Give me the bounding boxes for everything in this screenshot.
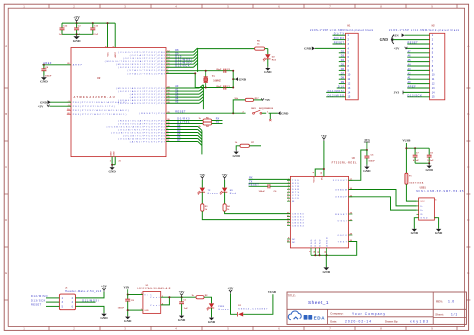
capacitor C9 100nF [428,148,430,155]
ground flag (SW1) [278,111,281,115]
ground flag (H2 pin 2) [393,39,430,41]
wire D0/RX to R5 [166,120,203,122]
svg-text:100nF: 100nF [118,307,125,309]
header H1 1x15 [346,33,359,100]
svg-text:NC: NC [292,242,296,244]
svg-text:GND: GND [178,318,186,322]
svg-text:xky183: xky183 [410,320,428,324]
svg-text:GND: GND [239,77,247,81]
svg-text:TITLE:: TITLE: [288,294,296,297]
svg-text:2020-02-14: 2020-02-14 [345,320,371,324]
wire F1 to USB VCC [406,184,416,201]
svg-text:GND: GND [363,169,371,173]
svg-text:1.0: 1.0 [448,300,454,304]
svg-text:3V3: 3V3 [364,138,370,142]
svg-text:RESET: RESET [335,214,347,216]
svg-text:DCD: DCD [292,198,299,200]
wire VIN node to U1 [128,294,143,296]
svg-text:MINI-USB-5P-SMT-H6.65: MINI-USB-5P-SMT-H6.65 [416,190,464,193]
svg-text:RXD: RXD [292,183,299,185]
resistor R4 1k [203,122,212,125]
svg-text:(SCL0/ADC5/PTCXY)PC5: (SCL0/ADC5/PTCXY)PC5 [118,102,165,105]
wire TX LED to CBUS [202,211,290,219]
svg-text:VCC: VCC [108,52,110,57]
resistor R5 1k [203,119,212,122]
resistor R7 1k [240,144,249,147]
svg-text:NC: NC [292,239,296,241]
power flag +5V (decoupling group) [76,21,78,23]
svg-text:D12/MISO: D12/MISO [31,295,47,298]
svg-text:Green: Green [218,308,229,311]
svg-text:GND: GND [114,151,116,156]
wire H1 pin 5 net D2 [339,52,346,54]
wire H2 pin 13 net AREF [407,87,429,89]
svg-text:GND: GND [264,70,272,74]
svg-text:GND: GND [73,39,81,43]
wire U1 GND pin to C8 node [128,309,143,311]
svg-text:PE2(PTCXY/ADC6/ACLS/ADC): PE2(PTCXY/ADC6/ACLS/ADC) [73,109,129,112]
wire H1 pin 15 net D12/MISO [326,96,345,98]
svg-text:Sheet:: Sheet: [435,312,444,316]
wire H1 pin 14 net D11/MOSI [326,91,345,93]
svg-text:GND: GND [233,154,241,158]
svg-text:TX: TX [216,121,220,124]
wire ground rail drop [325,255,327,267]
wire H2 pin 5 net A7 [407,52,429,54]
svg-text:GND: GND [40,80,48,84]
wire H2 pin 8 net A4 [407,65,429,67]
svg-text:+5V: +5V [264,98,271,102]
svg-text:A: A [467,44,469,48]
svg-text:REV:: REV: [436,300,443,304]
svg-text:D: D [467,218,469,222]
wire H2 pin 12 net A0 [407,83,429,85]
capacitor C13 4.7uF [92,23,94,28]
svg-text:(AIN1/PTCXY)PD7: (AIN1/PTCXY)PD7 [130,140,166,143]
svg-text:RESET: RESET [408,42,419,45]
svg-text:AREF: AREF [408,86,417,89]
svg-text:(CLKO/ICP1/PTCXY)PB0: (CLKO/ICP1/PTCXY)PB0 [118,52,165,54]
svg-text:RESET: RESET [31,304,42,307]
bus vertical PD [201,130,203,154]
svg-text:GND: GND [109,170,117,174]
wire R5 to RX label [212,120,223,122]
wire H1 pin 8 net D5 [339,65,346,67]
fuse F1 0467160A [405,173,408,184]
svg-text:B: B [467,112,469,116]
svg-text:D0/RX: D0/RX [334,37,345,40]
wire H2 pin 15 net D13/SCK [407,96,429,98]
wire H1 pin 12 net D9 [339,83,346,85]
wire H1 pin 3 net RESET [333,43,346,45]
svg-text:+5V: +5V [321,134,328,138]
power flag +5V (R17) [261,98,264,100]
svg-text:100nF: 100nF [45,75,52,77]
svg-text:100nF: 100nF [368,161,375,163]
wire RESET to C6 [249,185,268,187]
svg-text:SS814_C150867: SS814_C150867 [238,309,268,311]
svg-text:RESET: RESET [175,110,186,113]
wire XTAL2 (PB7) [166,73,233,87]
ground (decoupling group) [76,34,78,36]
svg-text:OSCI: OSCI [338,221,348,223]
svg-text:+5V: +5V [394,47,400,51]
svg-text:+5V: +5V [228,287,235,291]
ground (C5) [366,165,368,167]
svg-text:AVCC: AVCC [114,51,117,57]
power flag +5V (TX LED) [201,178,203,180]
svg-text:100nF: 100nF [427,160,434,162]
svg-text:E: E [5,271,7,275]
svg-text:GND: GND [304,47,312,51]
svg-text:RX: RX [249,176,253,179]
svg-text:GND: GND [208,320,216,324]
wire H1 pin 11 net D8 [339,78,346,80]
capacitor C7 4.7uF [414,148,416,155]
wire J1 pin1 D12/MISO [46,297,59,299]
wire USB GND to ground [414,218,418,229]
wire R6 to LED D2 [265,48,268,50]
svg-text:GND: GND [323,270,331,274]
wire USBDP to USB D+ [349,197,417,210]
svg-text:3V3: 3V3 [394,91,400,95]
pins GND bottom [111,157,113,165]
svg-text:PWR: PWR [218,306,225,308]
svg-text:VCC: VCC [321,175,323,180]
wire 3V3OUT to 3V3 [349,150,367,180]
FT232RL U3 body [290,176,348,248]
svg-text:+5V: +5V [73,16,80,20]
svg-text:D13/SCK: D13/SCK [31,299,46,302]
USB connector USB1 MINI-USB-5P [419,198,435,220]
svg-text:B: B [5,112,7,116]
svg-text:(MISO0/RXD1/PTCXY)PB4: (MISO0/RXD1/PTCXY)PB4 [116,64,166,66]
ground (MCU bottom) [111,165,113,168]
svg-text:21OS-1*15P L=11.6MM/Gold-plate: 21OS-1*15P L=11.6MM/Gold-plated black [389,29,460,32]
svg-text:20pF: 20pF [216,86,222,88]
svg-text:DTR: DTR [292,186,299,188]
wire RESET from MCU [166,112,246,114]
wire fan PB0-PB5 to bus [166,51,194,53]
ground (C4) [43,76,45,78]
svg-text:AGND: AGND [325,237,328,247]
svg-text:GND: GND [420,218,427,220]
resistor R6 1k [255,47,265,50]
svg-text:U2: U2 [97,76,101,80]
wire bus to R6 [198,48,255,50]
svg-text:3V3OUT: 3V3OUT [333,180,348,182]
wire U1 Vout pins join [161,297,170,305]
wire USB shield to ground [434,218,438,229]
capacitor C4 100nF [43,65,45,69]
ground (D2 LED) [267,67,269,68]
wire PWR LED to ground [211,308,213,317]
capacitor C1 20pF (bottom) [223,85,225,89]
power flag 3V3 (H2 pin 14) [403,91,430,93]
wire USBDM to USB D- [349,190,417,206]
ground (FT232) [325,266,327,268]
svg-text:D11/MOSI: D11/MOSI [328,90,345,93]
LED TX Green [201,180,203,188]
wire H2 pin 6 net A6 [407,56,429,58]
power flag +5V (RX LED) [224,178,226,180]
svg-text:VUSB: VUSB [268,290,276,294]
power flag +5V (MCU pin 5) [50,105,72,107]
switch SW1 unused pin stub [269,113,271,119]
MCU U2 ATMEGA328PB-AU body [71,48,166,157]
svg-text:D1/TX: D1/TX [334,33,345,36]
LED PWR Green [209,303,214,307]
wire J1 pin3 D13/SCK [46,301,59,303]
svg-text:GND: GND [319,239,321,246]
svg-text:(OC0B/T1/PTCXY)PD5: (OC0B/T1/PTCXY)PD5 [123,135,166,137]
svg-text:(SCK1/ADC1/PTCXY)PC1: (SCK1/ADC1/PTCXY)PC1 [118,90,165,93]
svg-text:CBUS2: CBUS2 [292,219,304,221]
power flag +5V (U1 output) [181,295,183,297]
svg-text:4.7uF: 4.7uF [92,33,98,36]
ground (C8) [127,315,129,318]
bus vertical PC [202,85,204,109]
wire XTAL1 (PB6) [166,70,233,72]
wire caps to ground [415,162,429,164]
capacitor C2 1uF [76,23,78,28]
wire H2 pin 11 net A1 [407,78,429,80]
svg-text:GND: GND [144,310,149,312]
ground flag (H1 pin 4) [315,47,346,49]
power flag VIN (H2 pin 1) [405,34,430,36]
svg-text:(ADC3/PTCXY)PC3: (ADC3/PTCXY)PC3 [130,96,166,99]
wire H1 pin 10 net D7 [339,74,346,76]
svg-text:16MHZ: 16MHZ [213,81,221,83]
wire AREF to pin 20 [42,64,71,66]
ground (J1) [103,312,105,315]
wire fan A0-A5 to bus [166,87,199,89]
svg-text:Date:: Date: [330,319,337,323]
ground (C1x) [181,314,183,317]
svg-text:CTS: CTS [292,195,300,197]
ground (C7/C9) [428,163,430,165]
svg-text:D10: D10 [338,86,345,89]
capacitor C12 1uF [61,23,63,28]
svg-text:D: D [5,218,7,222]
svg-text:D-: D- [420,206,423,208]
svg-text:CBUS1: CBUS1 [292,216,304,218]
svg-text:GND: GND [100,316,108,320]
wire R17 to reset node [233,100,245,113]
svg-text:(OC4B/T0/XCK0/PTCXY)PD4: (OC4B/T0/XCK0/PTCXY)PD4 [111,132,165,134]
svg-text:GND: GND [124,319,132,323]
ground (R7) [235,150,237,152]
svg-text:Red: Red [230,193,237,195]
resistor R17 10k pull-up [245,98,253,101]
wire H2 pin 9 net A3 [407,69,429,71]
wire TX to RXD [249,182,291,184]
svg-text:FT232RL-REEL: FT232RL-REEL [332,162,358,165]
svg-text:OSCO: OSCO [338,235,348,237]
diode D1 SS814 [238,312,243,316]
svg-text:20pF: 20pF [216,69,222,71]
svg-text:D11/MOSI: D11/MOSI [82,299,99,302]
wire LED to ground [267,59,269,67]
svg-text:4.7uF: 4.7uF [413,159,419,162]
ground flag (crystal) [235,77,238,81]
wire H1 pin 6 net D3 [339,56,346,58]
capacitor C8 100nF [127,295,129,299]
svg-text:(OC0A/AIN0/PTCXY)PD6: (OC0A/AIN0/PTCXY)PD6 [118,137,165,140]
wire +5V to D1 [231,294,238,315]
svg-text:(RXD0/OC3A/PTCXY)PD0: (RXD0/OC3A/PTCXY)PD0 [118,119,165,122]
svg-text:Header-Male-2.54_2x3: Header-Male-2.54_2x3 [65,290,102,293]
svg-text:Company:: Company: [330,312,343,316]
wire J1 pin5 RESET [46,305,59,307]
svg-text:Drawn By:: Drawn By: [385,319,398,323]
svg-text:0467160A: 0467160A [409,181,423,184]
wire J1 pin2 to +5V [76,292,105,298]
ground flag (MCU pin 3) [50,101,72,103]
wire D1/TX to R4 [166,123,203,125]
svg-text:(TXD0/OC4A/PTCXY)PD1: (TXD0/OC4A/PTCXY)PD1 [118,122,165,125]
resistor R4 1k (RX LED) [224,192,226,204]
svg-text:CBUS3: CBUS3 [292,222,304,224]
svg-text:100nF: 100nF [259,191,266,193]
wire VUSB rail [405,143,407,173]
svg-text:(MOSI0/TXD1/OC2A/PTCXY)PB3: (MOSI0/TXD1/OC2A/PTCXY)PB3 [105,60,166,63]
bus vertical PB [197,48,199,72]
power flag +5V (H2 pin 4) [406,47,430,49]
wire cap bottoms to GND [62,33,93,35]
svg-text:GND: GND [435,231,443,235]
wire +5V rail to VCC/AVCC [62,22,115,24]
LED RX Red [224,180,226,188]
wire TEST to ground rail [311,242,357,256]
svg-text:RTS: RTS [292,192,300,194]
svg-text:GND: GND [315,239,317,246]
svg-text:RX: RX [230,190,234,192]
svg-text:+5V: +5V [179,290,186,294]
wire RX to TXD [249,178,291,180]
header J1 2x3 ICSP [59,294,75,310]
svg-text:D13/SCK: D13/SCK [175,64,190,67]
wire fan D2-D7 to bus [166,126,198,128]
wire R4 to TX label [212,123,223,125]
wire H2 pin 7 net A5 [407,61,429,63]
wire R17 to +5V [254,99,263,101]
svg-text:GND: GND [411,231,419,235]
ground (USB shield) [438,228,440,230]
wire H2 pin 3 net RESET [407,43,429,45]
svg-text:Your Company: Your Company [352,312,385,316]
svg-text:GND: GND [110,151,112,156]
wire +5V to VCC/VCCIO [323,141,325,176]
svg-text:SW1: SW1 [251,108,257,110]
svg-text:Red: Red [272,59,277,61]
svg-text:GND: GND [311,239,313,246]
svg-text:VIN: VIN [393,33,399,37]
power flag +5V (D1) [230,292,232,294]
svg-text:(RESET#)PC6: (RESET#)PC6 [139,113,165,115]
wire R7 to ground [236,146,240,150]
svg-text:(OC3B/XCK0/AIN1/PTCXY)PD2: (OC3B/XCK0/AIN1/PTCXY)PD2 [107,125,166,128]
capacitor C2x 20pF (top) [223,69,225,73]
wire H2 pin 10 net A2 [407,74,429,76]
svg-text:(SDA0/ADC4/PTCXY)PC4: (SDA0/ADC4/PTCXY)PC4 [118,99,165,102]
svg-text:CBUS4: CBUS4 [292,225,304,227]
svg-text:Green: Green [208,192,219,195]
svg-text:VCC: VCC [420,201,425,203]
svg-text:C: C [467,165,469,169]
svg-text:PE3(PTCY/ADC7/T3/MOSI1): PE3(PTCY/ADC7/T3/MOSI1) [73,113,127,116]
wire D1 to VUSB [243,294,273,314]
capacitor C5 100nF [366,150,368,156]
header H2 1x15 [430,33,445,100]
wire H1 pin 9 net D6 [339,69,346,71]
svg-text:(MISO1/ADC0/PTCXY)PC0: (MISO1/ADC0/PTCXY)PC0 [116,87,166,90]
svg-text:(SCK0/XCK1/PTCXY)PB5: (SCK0/XCK1/PTCXY)PB5 [118,67,165,69]
wire J1 pin4 D11/MOSI [76,301,96,303]
svg-text:D13/SCK: D13/SCK [408,94,423,97]
power flag +5V (FT232) [323,139,325,141]
wire crystal caps to ground [232,71,234,88]
svg-text:GND: GND [380,38,389,42]
svg-text:PE1(PTCXY/SCL1/T4): PE1(PTCXY/SCL1/T4) [73,106,115,108]
wire R2 to PWR LED [204,297,212,303]
wire C6 to DTR [270,185,291,187]
svg-text:USBDP: USBDP [335,197,347,199]
svg-text:RESET: RESET [334,42,345,45]
svg-text:GND: GND [426,168,434,172]
svg-text:1uF: 1uF [184,308,189,310]
svg-text:A: A [5,44,7,48]
wire H1 pin 13 net D10 [337,87,346,89]
svg-text:VIN: VIN [124,285,130,289]
svg-text:VCCIO: VCCIO [313,176,315,183]
resistor R3 1k (TX LED) [201,192,203,204]
crystal Y1 16MHZ [205,71,207,77]
ground (USB GND) [413,228,415,230]
svg-text:SKQYPAE010: SKQYPAE010 [259,107,274,110]
svg-text:(ADC2/PTCXY)PC2: (ADC2/PTCXY)PC2 [130,93,166,96]
svg-text:(OC2B/INT1/PTCXY)PD3: (OC2B/INT1/PTCXY)PD3 [118,129,165,131]
svg-text:D12/MISO: D12/MISO [328,94,344,97]
svg-text:CBUS0: CBUS0 [292,213,304,215]
resistor R2 1k (power LED) [196,296,204,299]
svg-text:+5V: +5V [199,173,206,177]
svg-text:E: E [467,271,469,275]
wire H1 pin 2 net D0/RX [333,39,346,41]
LDO U1 LD1117AG-50-BA5-A-R body [143,292,161,314]
svg-text:EDA: EDA [314,316,326,321]
svg-text:LD1117AG-50-BA5-A-R: LD1117AG-50-BA5-A-R [137,287,170,290]
svg-text:+5V: +5V [38,105,44,109]
title block [287,292,466,324]
power flag +5V (J1) [103,290,105,292]
ground (PWR LED) [211,316,213,319]
svg-text:USBDM: USBDM [335,189,347,191]
svg-text:TXD: TXD [292,180,299,182]
wire H1 pin 7 net D4 [339,61,346,63]
svg-text:C: C [5,165,7,169]
svg-text:DSR: DSR [292,189,299,191]
svg-text:+5V: +5V [101,285,108,289]
wire J1 pin6 to ground [76,306,105,313]
LED D2 Red [265,54,270,58]
EasyEDA logo [288,311,301,320]
capacitor C6 100nF [267,184,269,188]
wire RX LED to CBUS [225,211,291,213]
wire H1 pin 1 net D1/TX [333,34,346,36]
svg-text:(OC1B/SS/PTCXY)PB2: (OC1B/SS/PTCXY)PB2 [123,58,166,60]
svg-text:GND: GND [281,111,289,115]
